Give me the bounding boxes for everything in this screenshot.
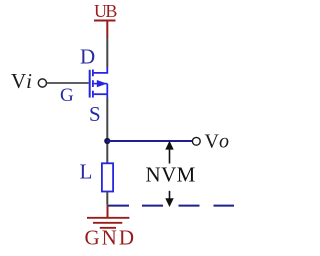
svg-text:Vo: Vo [205,131,229,153]
node junction source/output [104,138,110,144]
dimension arrow up [169,147,171,164]
transistor Q1 bulk channel segment [92,80,94,87]
ground symbol bar 1 [87,217,129,219]
transistor Q1 source channel segment [92,91,94,98]
svg-text:G: G [60,85,74,106]
transistor Q1 drain channel segment [92,70,94,77]
wire gate (gray) [47,82,89,84]
svg-text:UB: UB [94,1,117,21]
transistor Q1 gate bar [89,70,91,98]
power rail bar UB [94,20,116,22]
transistor Q1 bulk lead [94,83,108,85]
wire ground stub (red) [107,205,109,217]
resistor L [102,163,113,191]
dimension arrow down [169,191,171,200]
svg-text:Vi: Vi [11,69,32,93]
transistor Q1 bulk arrow [97,80,107,87]
ground symbol bar 3 [100,227,116,229]
wire source vertical (gray) [106,98,108,163]
svg-text:S: S [89,102,101,126]
dashed reference line [107,205,234,207]
wire below resistor (gray) [106,192,108,205]
wire drain bend (blue) [94,67,108,73]
svg-text:L: L [80,159,93,183]
transistor Q1 bulk-source tie [106,84,108,95]
wire UB stub (red) [106,21,108,38]
svg-text:NVM: NVM [146,162,196,186]
input terminal Vi circle [38,79,46,87]
wire drain vertical (gray) [106,37,108,67]
svg-text:GND: GND [85,226,137,250]
transistor Q1 source lead [94,93,108,95]
ground symbol bar 2 [93,222,122,224]
svg-text:D: D [80,45,95,69]
wire output horizontal (navy) [107,140,192,142]
output terminal Vo circle [192,137,200,145]
wire source bend (blue) [106,94,108,98]
